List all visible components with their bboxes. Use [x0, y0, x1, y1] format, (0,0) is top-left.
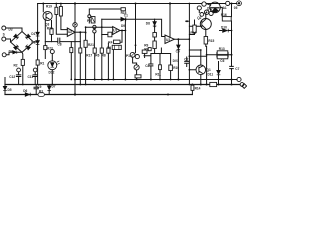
svg-text:D6: D6	[23, 89, 27, 93]
svg-text:05: 05	[234, 6, 238, 10]
svg-text:P1: P1	[126, 54, 130, 58]
svg-text:R19: R19	[46, 5, 52, 9]
svg-text:R3: R3	[39, 89, 43, 93]
svg-text:P2: P2	[87, 19, 91, 23]
svg-text:C8: C8	[57, 42, 61, 46]
svg-text:R14: R14	[195, 86, 201, 90]
svg-text:D7: D7	[52, 85, 56, 89]
svg-text:S: S	[3, 33, 5, 37]
svg-text:C6: C6	[220, 59, 224, 63]
svg-text:R15: R15	[208, 39, 214, 43]
svg-text:R12: R12	[190, 31, 196, 35]
svg-text:U3: U3	[166, 38, 170, 42]
svg-text:C1: C1	[124, 14, 128, 18]
svg-text:D2: D2	[31, 41, 35, 45]
svg-text:R17: R17	[86, 54, 92, 58]
svg-text:C5: C5	[176, 49, 180, 53]
svg-text:R20: R20	[47, 27, 53, 31]
svg-text:A1: A1	[223, 6, 227, 10]
svg-text:R10: R10	[173, 66, 179, 70]
svg-text:Q1: Q1	[207, 68, 211, 72]
svg-text:D8: D8	[146, 22, 150, 26]
svg-text:D10: D10	[221, 25, 227, 29]
svg-text:R23: R23	[47, 46, 53, 50]
svg-text:D11: D11	[208, 73, 214, 77]
svg-text:D1: D1	[31, 32, 35, 36]
svg-text:C11: C11	[28, 75, 34, 79]
svg-text:D4: D4	[9, 49, 13, 53]
svg-text:C12: C12	[9, 75, 15, 79]
svg-text:U1: U1	[113, 29, 117, 33]
svg-text:R1: R1	[40, 61, 44, 65]
svg-text:R4: R4	[108, 40, 112, 44]
svg-text:C4: C4	[145, 64, 149, 68]
svg-text:R6: R6	[95, 54, 99, 58]
svg-text:C2: C2	[184, 57, 188, 61]
svg-text:Q2: Q2	[197, 16, 201, 20]
svg-text:C7: C7	[235, 67, 239, 71]
svg-text:D3: D3	[9, 28, 13, 32]
svg-text:R11: R11	[155, 72, 161, 76]
svg-text:R8: R8	[144, 48, 148, 52]
svg-text:D12: D12	[49, 70, 55, 74]
svg-text:U2: U2	[68, 30, 72, 34]
svg-text:C9: C9	[37, 85, 41, 89]
svg-text:R16: R16	[221, 13, 227, 17]
svg-text:R8: R8	[102, 54, 106, 58]
svg-text:Q4: Q4	[207, 6, 211, 10]
svg-text:D5: D5	[8, 88, 12, 92]
svg-text:D9: D9	[121, 24, 125, 28]
svg-text:DV1: DV1	[173, 59, 179, 63]
svg-text:R2: R2	[14, 64, 18, 68]
svg-text:R6: R6	[107, 46, 111, 50]
svg-text:R21: R21	[88, 43, 94, 47]
svg-text:R13: R13	[219, 47, 225, 51]
